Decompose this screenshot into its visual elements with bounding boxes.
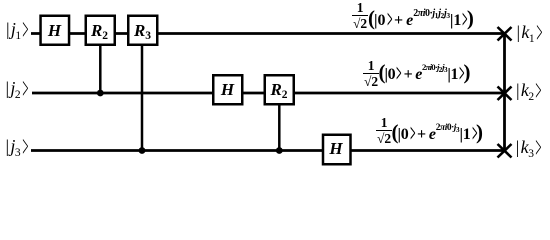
node control dot on j3 under R3: [139, 147, 146, 154]
gate R2b box: [265, 75, 294, 104]
gate R3 box: [128, 16, 157, 45]
gate H1 box: [41, 16, 70, 45]
node label ket k1: [517, 23, 542, 41]
label formula k2 main: [379, 64, 470, 84]
node label ket k2: [516, 81, 541, 99]
label formula k1 fraction: [352, 1, 368, 30]
node swap cross on j2: [498, 87, 512, 101]
gate R2 box: [86, 16, 115, 45]
node label ket j1: [6, 20, 28, 38]
node label ket j3: [6, 137, 28, 155]
wire qubit j1: [31, 32, 505, 35]
gate H2 box: [213, 75, 242, 104]
label formula k3 fraction: [376, 116, 392, 145]
label formula k3 main: [392, 124, 483, 145]
node swap cross on j1: [498, 27, 512, 41]
gate R2b label: [265, 81, 294, 98]
gate H1 label: [40, 22, 69, 39]
wire qubit j2: [32, 92, 505, 95]
gate H2 label: [213, 81, 242, 98]
wire qubit j3: [31, 149, 505, 152]
label formula k2 fraction: [363, 59, 379, 88]
node swap cross on j3: [498, 144, 512, 158]
wire control R2b to j3: [278, 104, 281, 151]
node label ket k3: [516, 138, 541, 156]
node label ket j2: [6, 79, 28, 97]
gate R3 label: [128, 22, 157, 39]
gate R2 label: [85, 22, 114, 39]
node control dot on j3 under R2b: [276, 147, 283, 154]
gate H3 box: [323, 135, 351, 165]
wire control R3 to j3: [141, 44, 144, 151]
node control dot on j2: [97, 90, 104, 97]
label formula k1 main: [368, 10, 473, 31]
gate H3 label: [322, 140, 351, 157]
wire control R2 to j2: [99, 44, 102, 93]
wire swap connector vertical: [503, 34, 506, 151]
